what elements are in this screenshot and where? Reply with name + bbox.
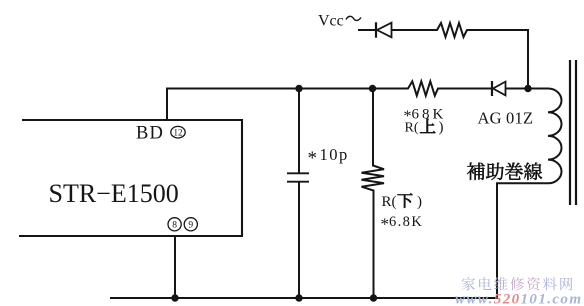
svg-text:R(: R( <box>405 121 419 136</box>
capacitor C1 <box>287 173 309 181</box>
node: cap bottom <box>295 294 302 301</box>
svg-text:BD: BD <box>136 124 164 144</box>
wire: BD pin up to main node rail (with resistor R-upper zigzag inline) <box>167 81 548 120</box>
wire: pins 8/9 down to bottom rail <box>174 236 176 298</box>
IC U1 STR-E1500 (box, open at left) <box>19 120 242 236</box>
node: winding top / Vcc feed <box>524 85 531 92</box>
svg-text:6.8K: 6.8K <box>389 214 423 230</box>
svg-text:Vcc: Vcc <box>318 13 344 30</box>
node: pin8-9 bottom <box>171 294 178 301</box>
node: R-lower bottom <box>370 294 377 301</box>
svg-text:8: 8 <box>172 221 177 231</box>
svg-text:10p: 10p <box>320 145 349 164</box>
wire: capacitor C1 bottom plate to bottom rail <box>298 182 300 298</box>
wire: bottom rail and winding return <box>110 183 548 298</box>
pin number 8 (circled) <box>168 218 181 231</box>
svg-text:): ) <box>417 194 422 210</box>
svg-text:*: * <box>381 215 390 234</box>
Vcc squiggle (wave) <box>346 16 361 20</box>
node: cap top <box>295 85 302 92</box>
inductor L1 auxiliary winding (4 arcs) <box>548 89 562 184</box>
wire: Vcc stub, through diode and resistor R3, down to main rail <box>358 23 528 89</box>
svg-text:R(: R( <box>382 194 397 210</box>
pin number 12 (circled) <box>171 126 185 138</box>
svg-text:STR−E1500: STR−E1500 <box>49 179 179 208</box>
svg-text:*: * <box>308 148 318 169</box>
wire: main rail to capacitor C1 top plate <box>298 89 300 173</box>
node: R-lower top <box>369 85 376 92</box>
pin number 9 (circled) <box>184 218 197 231</box>
svg-text:): ) <box>439 120 444 136</box>
svg-text:12: 12 <box>174 127 183 137</box>
diode D2 (top, cathode left) <box>376 22 392 37</box>
winding label (auxiliary winding) <box>467 163 542 180</box>
svg-text:www.520101.com: www.520101.com <box>455 292 582 306</box>
svg-text:9: 9 <box>188 221 193 231</box>
diode D1 AG 01Z (cathode left) <box>492 81 506 96</box>
transformer core <box>570 60 576 205</box>
wire + resistor R-lower (vertical zigzag) to bottom rail <box>362 89 385 299</box>
svg-text:AG 01Z: AG 01Z <box>478 109 534 128</box>
